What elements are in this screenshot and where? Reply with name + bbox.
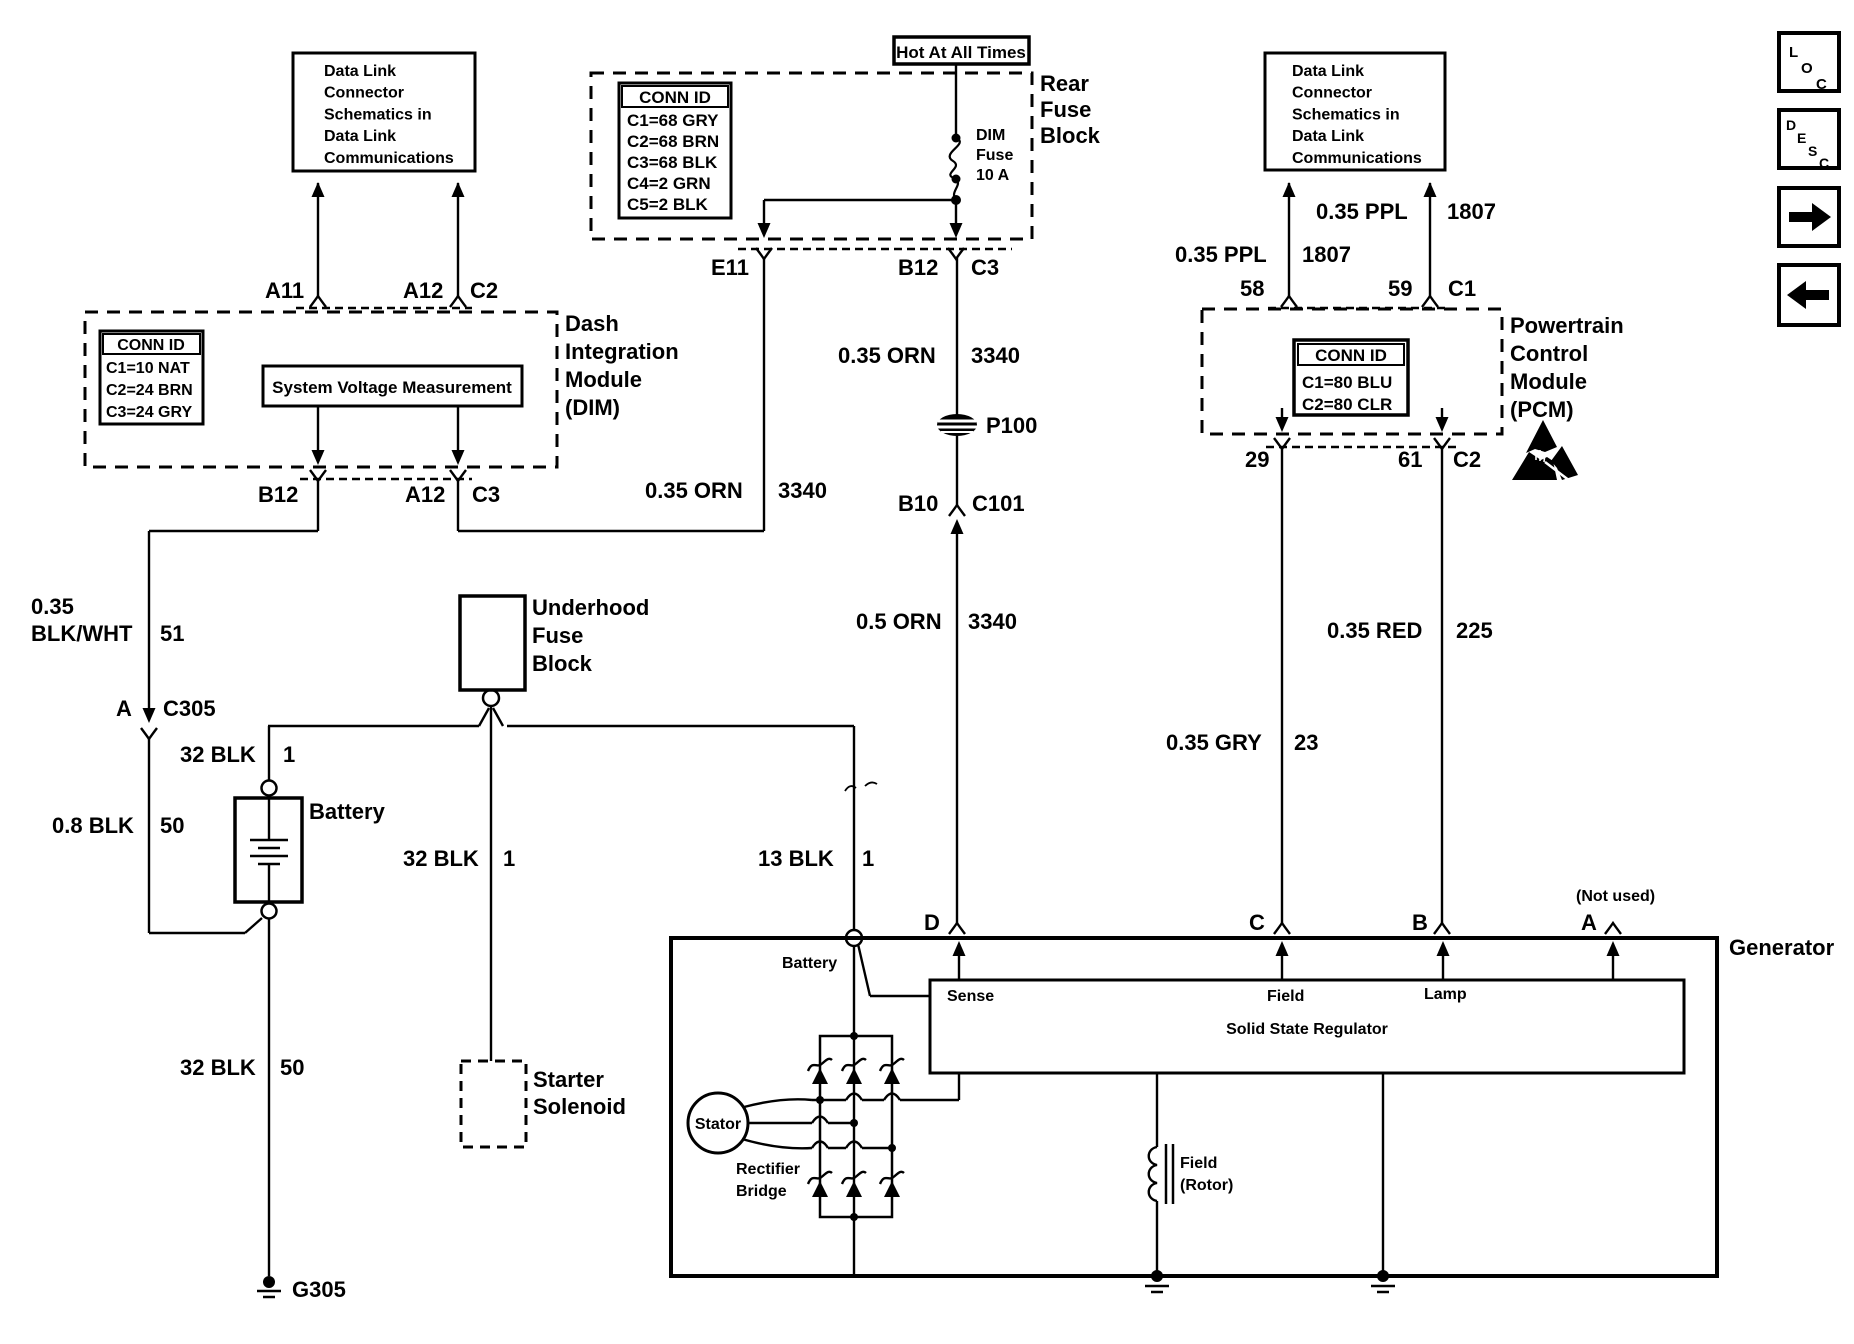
svg-text:23: 23 [1294,730,1318,755]
svg-text:CONN ID: CONN ID [1315,346,1387,365]
svg-text:Sense: Sense [947,988,994,1005]
svg-text:Communications: Communications [324,150,454,167]
svg-text:3340: 3340 [778,478,827,503]
svg-text:CONN ID: CONN ID [117,337,185,354]
svg-text:C2: C2 [1453,447,1481,472]
svg-text:32 BLK: 32 BLK [180,1055,256,1080]
svg-text:A: A [1581,910,1597,935]
svg-text:CONN ID: CONN ID [639,88,711,107]
svg-text:1: 1 [283,742,295,767]
svg-text:0.5 ORN: 0.5 ORN [856,609,942,634]
svg-text:D: D [924,910,940,935]
svg-text:58: 58 [1240,276,1264,301]
svg-text:B12: B12 [898,255,938,280]
svg-text:C3: C3 [971,255,999,280]
svg-text:C4=2 GRN: C4=2 GRN [627,174,711,193]
svg-text:C3: C3 [472,482,500,507]
svg-text:Data Link: Data Link [324,63,396,80]
svg-text:G305: G305 [292,1277,346,1302]
svg-text:13 BLK: 13 BLK [758,846,834,871]
svg-text:Dash: Dash [565,311,619,336]
svg-text:C: C [1819,155,1829,171]
svg-text:Bridge: Bridge [736,1183,787,1200]
svg-text:Powertrain: Powertrain [1510,313,1624,338]
svg-text:C: C [1249,910,1265,935]
svg-text:3340: 3340 [971,343,1020,368]
svg-text:Starter: Starter [533,1067,604,1092]
svg-text:B10: B10 [898,491,938,516]
svg-text:Rear: Rear [1040,71,1089,96]
svg-text:Field: Field [1267,988,1304,1005]
svg-text:A12: A12 [403,278,443,303]
svg-text:Schematics in: Schematics in [1292,106,1400,123]
svg-text:1: 1 [862,846,874,871]
svg-text:1807: 1807 [1447,199,1496,224]
svg-text:Module: Module [565,367,642,392]
svg-text:C: C [1816,76,1827,93]
svg-text:A: A [116,696,132,721]
svg-text:Battery: Battery [309,799,386,824]
svg-text:0.8 BLK: 0.8 BLK [52,813,134,838]
svg-text:C1=10 NAT: C1=10 NAT [106,360,190,377]
svg-text:1807: 1807 [1302,242,1351,267]
svg-text:(PCM): (PCM) [1510,397,1574,422]
svg-text:Connector: Connector [1292,85,1372,102]
svg-text:Data Link: Data Link [324,128,396,145]
svg-text:Lamp: Lamp [1424,986,1467,1003]
svg-text:Underhood: Underhood [532,595,649,620]
svg-text:Data Link: Data Link [1292,63,1364,80]
svg-text:C1=68 GRY: C1=68 GRY [627,111,719,130]
svg-text:59: 59 [1388,276,1412,301]
svg-text:C2=24 BRN: C2=24 BRN [106,382,193,399]
svg-text:1: 1 [503,846,515,871]
svg-text:P100: P100 [986,413,1037,438]
svg-text:Field: Field [1180,1155,1217,1172]
svg-text:C2=80 CLR: C2=80 CLR [1302,395,1392,414]
svg-text:0.35: 0.35 [31,594,74,619]
svg-text:S: S [1808,143,1817,159]
svg-text:0.35 ORN: 0.35 ORN [645,478,743,503]
svg-text:Fuse: Fuse [532,623,583,648]
svg-text:L: L [1789,44,1798,61]
svg-text:Module: Module [1510,369,1587,394]
svg-text:Fuse: Fuse [1040,97,1091,122]
svg-text:10 A: 10 A [976,167,1010,184]
svg-text:0.35 GRY: 0.35 GRY [1166,730,1262,755]
svg-text:C1=80 BLU: C1=80 BLU [1302,373,1392,392]
svg-text:Stator: Stator [695,1116,741,1133]
svg-text:C3=68 BLK: C3=68 BLK [627,153,718,172]
svg-text:Fuse: Fuse [976,147,1013,164]
svg-text:50: 50 [280,1055,304,1080]
svg-text:A11: A11 [265,278,304,303]
svg-text:0.35 PPL: 0.35 PPL [1316,199,1408,224]
svg-text:Data Link: Data Link [1292,128,1364,145]
svg-text:Hot At All Times: Hot At All Times [896,43,1026,62]
svg-text:0.35 RED: 0.35 RED [1327,618,1422,643]
svg-text:System Voltage Measurement: System Voltage Measurement [272,378,512,397]
svg-text:32 BLK: 32 BLK [403,846,479,871]
svg-text:Rectifier: Rectifier [736,1161,800,1178]
svg-text:3340: 3340 [968,609,1017,634]
svg-text:E: E [1797,130,1806,146]
svg-text:(Not used): (Not used) [1576,888,1655,905]
svg-text:Generator: Generator [1729,935,1835,960]
svg-text:51: 51 [160,621,184,646]
svg-text:DIM: DIM [976,127,1005,144]
svg-text:225: 225 [1456,618,1493,643]
svg-text:Battery: Battery [782,955,837,972]
svg-text:C305: C305 [163,696,216,721]
svg-text:Block: Block [532,651,593,676]
svg-text:32 BLK: 32 BLK [180,742,256,767]
svg-text:29: 29 [1245,447,1269,472]
svg-text:C101: C101 [972,491,1025,516]
svg-text:Connector: Connector [324,85,404,102]
svg-text:(DIM): (DIM) [565,395,620,420]
svg-text:BLK/WHT: BLK/WHT [31,621,133,646]
svg-text:Solid State Regulator: Solid State Regulator [1226,1021,1388,1038]
svg-text:D: D [1786,117,1796,133]
svg-text:Block: Block [1040,123,1101,148]
svg-text:C3=24 GRY: C3=24 GRY [106,404,192,421]
svg-text:B: B [1412,910,1428,935]
svg-text:61: 61 [1398,447,1422,472]
svg-text:C2=68 BRN: C2=68 BRN [627,132,719,151]
svg-text:Control: Control [1510,341,1588,366]
svg-text:(Rotor): (Rotor) [1180,1177,1233,1194]
svg-text:C2: C2 [470,278,498,303]
svg-text:C5=2 BLK: C5=2 BLK [627,195,708,214]
svg-text:0.35 PPL: 0.35 PPL [1175,242,1267,267]
svg-text:O: O [1801,60,1813,77]
svg-text:Schematics in: Schematics in [324,106,432,123]
svg-text:Communications: Communications [1292,150,1422,167]
svg-text:Solenoid: Solenoid [533,1094,626,1119]
svg-text:C1: C1 [1448,276,1476,301]
svg-text:50: 50 [160,813,184,838]
svg-text:A12: A12 [405,482,445,507]
svg-text:B12: B12 [258,482,298,507]
svg-text:0.35 ORN: 0.35 ORN [838,343,936,368]
svg-text:E11: E11 [711,255,749,280]
svg-text:Integration: Integration [565,339,679,364]
